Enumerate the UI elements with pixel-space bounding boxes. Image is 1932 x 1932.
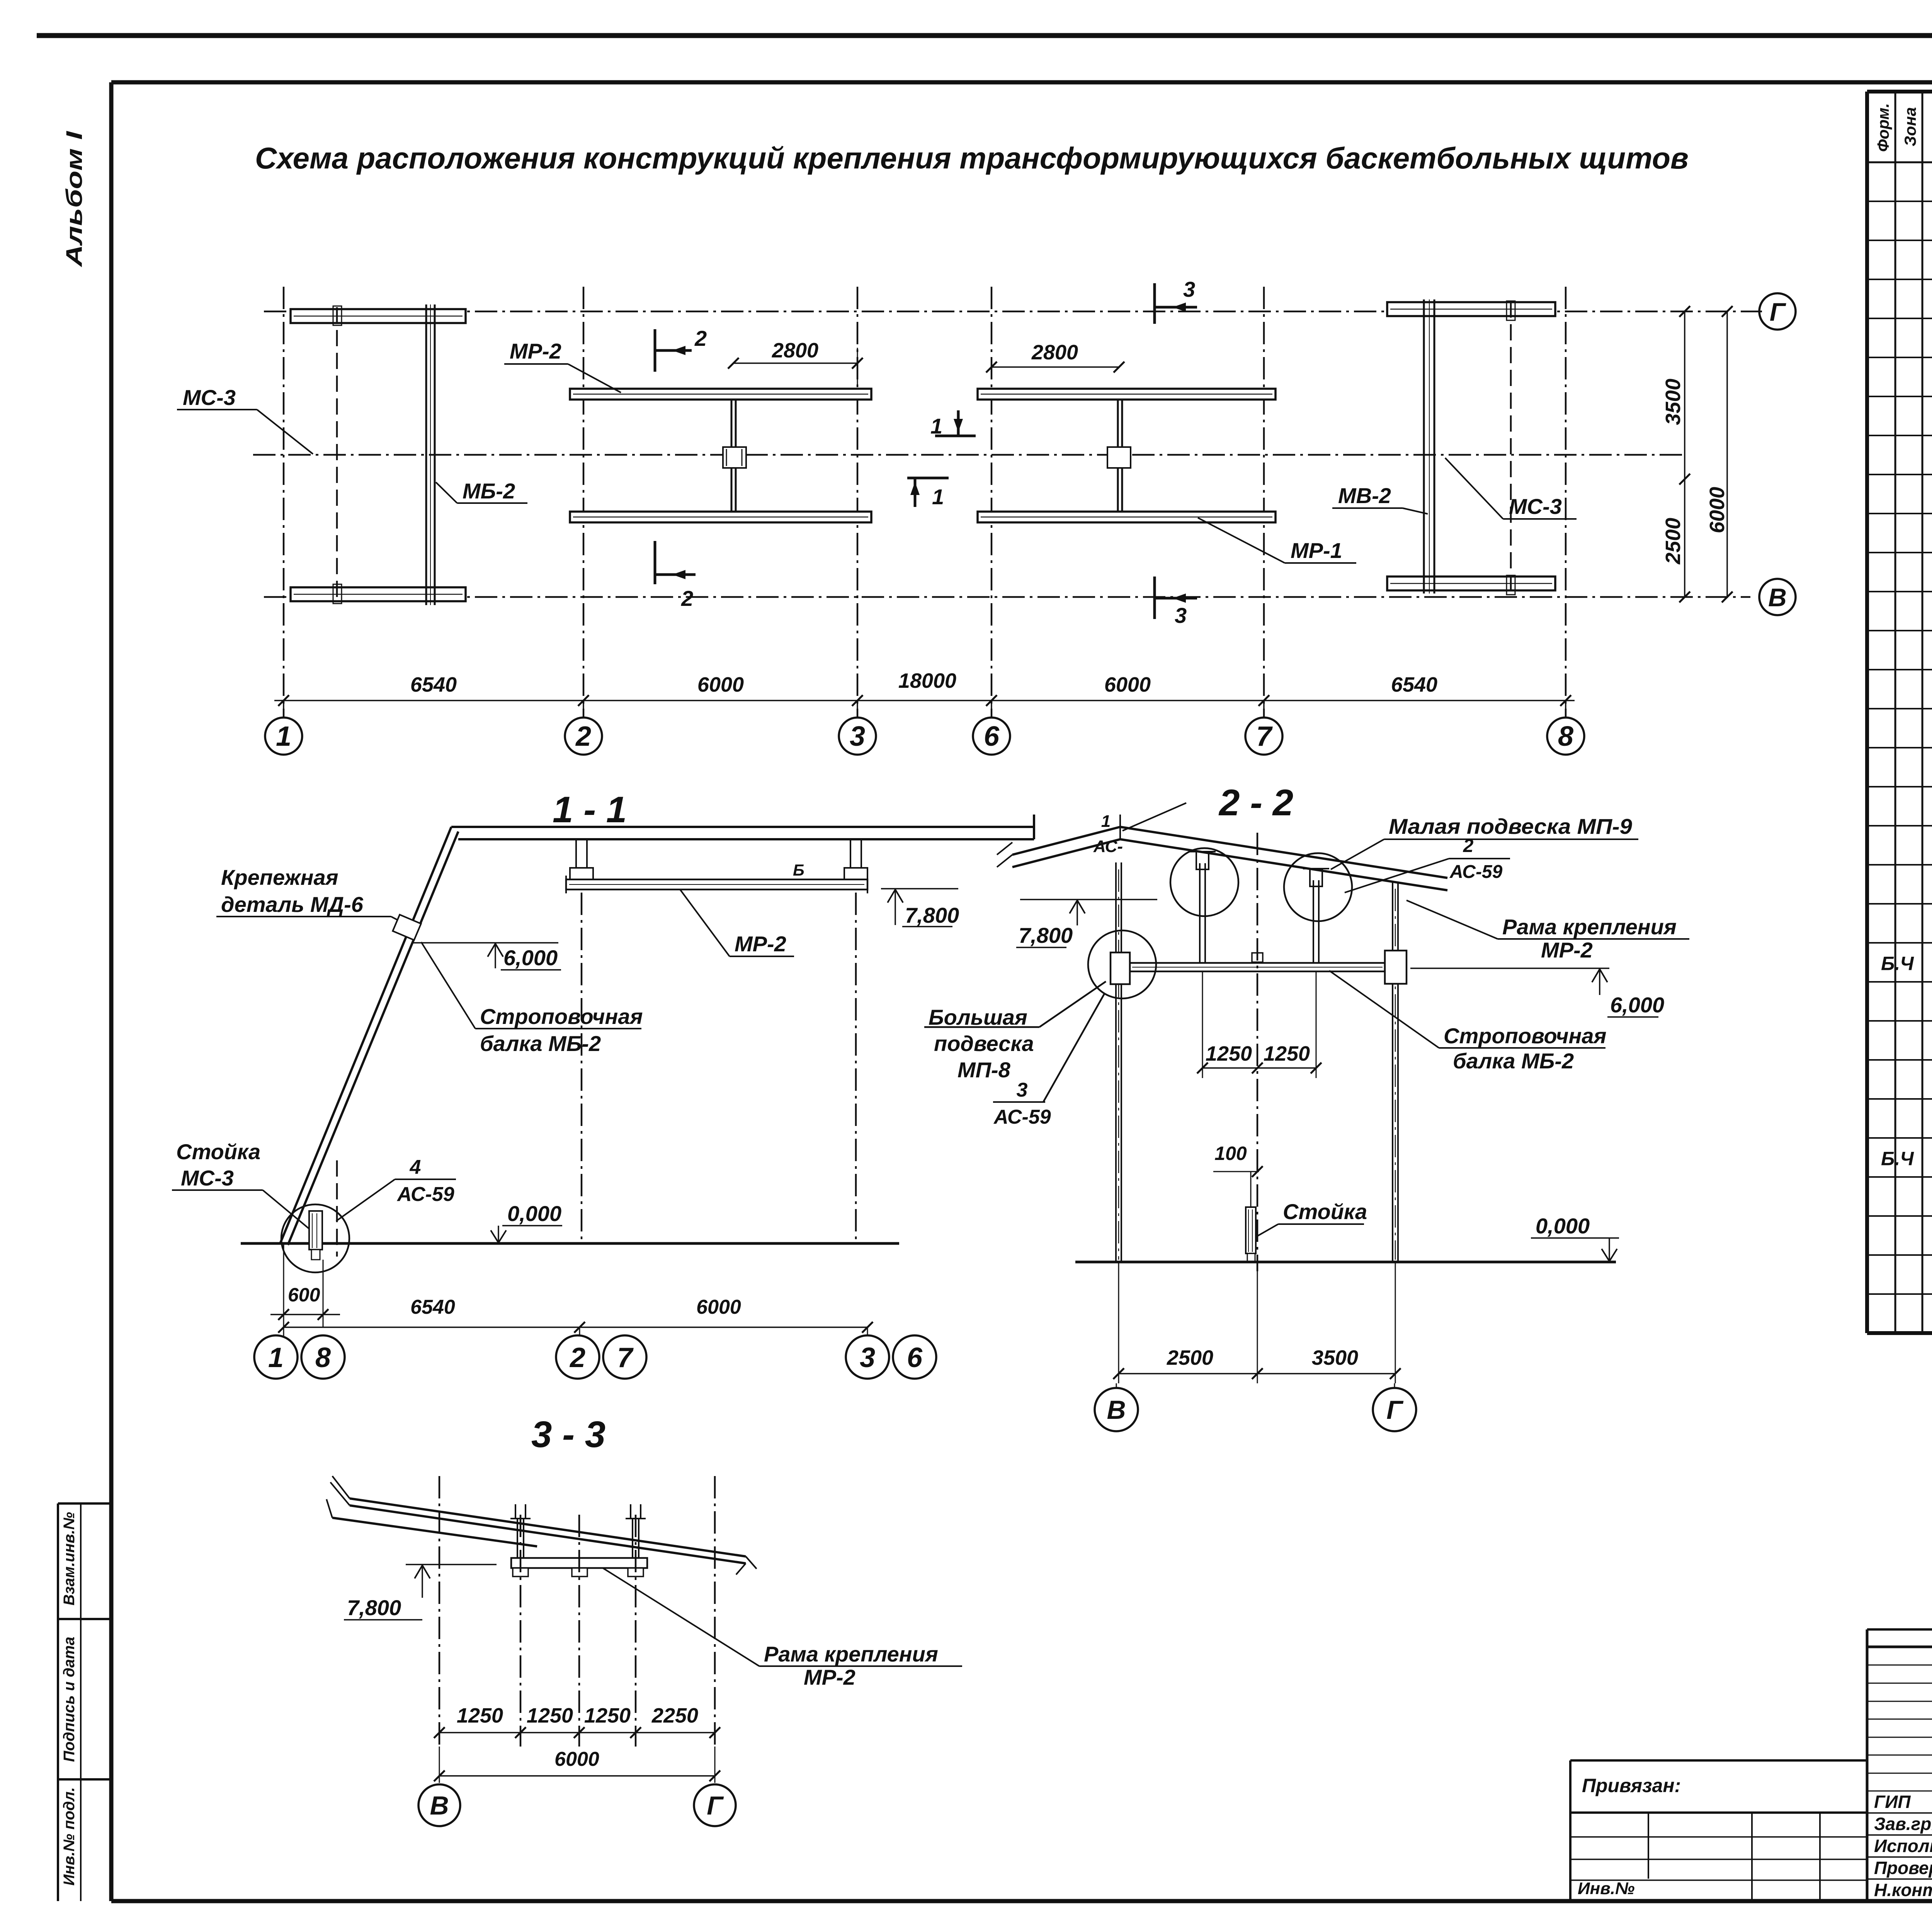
svg-text:3: 3 (1017, 1079, 1028, 1101)
svg-text:Стойка: Стойка (176, 1139, 260, 1164)
svg-text:МС-3: МС-3 (181, 1166, 234, 1190)
svg-text:6540: 6540 (410, 673, 457, 696)
svg-text:1250: 1250 (1264, 1042, 1310, 1065)
svg-text:Б.Ч: Б.Ч (1881, 953, 1914, 975)
svg-text:1250: 1250 (527, 1704, 573, 1727)
svg-text:6: 6 (907, 1342, 923, 1373)
svg-text:Б.Ч: Б.Ч (1881, 1148, 1914, 1170)
svg-text:6: 6 (984, 721, 1000, 752)
svg-text:МВ-2: МВ-2 (1338, 483, 1391, 508)
svg-text:4: 4 (410, 1156, 421, 1179)
svg-text:балка МБ-2: балка МБ-2 (1453, 1049, 1574, 1073)
svg-text:АС-59: АС-59 (993, 1106, 1051, 1128)
svg-text:3 - 3: 3 - 3 (531, 1414, 605, 1455)
svg-text:Альбом I: Альбом I (62, 130, 87, 267)
svg-text:7: 7 (1256, 721, 1273, 752)
svg-text:В: В (1107, 1395, 1126, 1425)
svg-text:МБ-2: МБ-2 (463, 479, 515, 503)
svg-text:1: 1 (930, 414, 942, 438)
svg-text:Зона: Зона (1901, 107, 1919, 146)
svg-text:6000: 6000 (696, 1296, 741, 1318)
svg-text:7,800: 7,800 (905, 903, 959, 927)
svg-text:Г: Г (1386, 1395, 1404, 1425)
svg-text:МР-2: МР-2 (735, 932, 786, 956)
svg-text:0,000: 0,000 (1536, 1214, 1590, 1238)
svg-text:МР-2: МР-2 (510, 339, 561, 363)
svg-text:Провер.: Провер. (1874, 1858, 1932, 1878)
svg-text:АС-59: АС-59 (396, 1183, 454, 1206)
svg-text:1250: 1250 (584, 1704, 631, 1727)
svg-text:7,800: 7,800 (347, 1595, 401, 1620)
svg-text:2800: 2800 (772, 339, 818, 362)
svg-text:1250: 1250 (1206, 1042, 1252, 1065)
svg-text:1 - 1: 1 - 1 (553, 789, 627, 830)
svg-text:Инв.№: Инв.№ (1578, 1879, 1634, 1898)
svg-text:2: 2 (694, 326, 707, 350)
svg-text:МР-2: МР-2 (1541, 938, 1593, 962)
svg-text:6000: 6000 (554, 1748, 599, 1770)
svg-text:балка МБ-2: балка МБ-2 (480, 1031, 601, 1056)
svg-text:7,800: 7,800 (1019, 923, 1073, 947)
svg-text:2500: 2500 (1167, 1346, 1213, 1369)
svg-text:3500: 3500 (1662, 379, 1685, 425)
svg-text:Строповочная: Строповочная (480, 1004, 643, 1029)
svg-text:Взам.инв.№: Взам.инв.№ (61, 1512, 78, 1605)
svg-text:18000: 18000 (898, 669, 956, 692)
svg-text:7: 7 (617, 1342, 634, 1373)
svg-text:МР-2: МР-2 (804, 1665, 855, 1689)
svg-text:100: 100 (1214, 1143, 1247, 1164)
svg-text:деталь МД-6: деталь МД-6 (221, 892, 364, 917)
svg-text:Г: Г (707, 1791, 724, 1820)
svg-text:АС-: АС- (1093, 837, 1123, 856)
svg-text:Исполн.: Исполн. (1874, 1836, 1932, 1856)
svg-text:МС-3: МС-3 (1509, 494, 1562, 519)
svg-text:6000: 6000 (1706, 487, 1729, 533)
svg-text:Крепежная: Крепежная (221, 865, 338, 889)
svg-text:МС-3: МС-3 (183, 385, 236, 410)
svg-text:Привязан:: Привязан: (1582, 1775, 1681, 1796)
svg-text:Строповочная: Строповочная (1444, 1024, 1607, 1048)
svg-text:МР-1: МР-1 (1291, 538, 1342, 563)
svg-text:Малая подвеска МП-9: Малая подвеска МП-9 (1389, 814, 1632, 838)
svg-text:6540: 6540 (1391, 673, 1437, 696)
svg-text:2500: 2500 (1662, 518, 1685, 565)
svg-text:2: 2 (681, 586, 693, 611)
svg-text:Рама крепления: Рама крепления (1502, 915, 1677, 939)
svg-text:Большая: Большая (929, 1005, 1027, 1029)
svg-text:1: 1 (932, 485, 944, 509)
svg-text:600: 600 (288, 1284, 320, 1306)
svg-text:3: 3 (1183, 277, 1195, 301)
svg-text:3: 3 (850, 721, 865, 752)
svg-text:2800: 2800 (1031, 341, 1078, 364)
svg-text:Подпись и дата: Подпись и дата (61, 1637, 78, 1762)
svg-text:6,000: 6,000 (1610, 993, 1664, 1017)
svg-text:3: 3 (860, 1342, 875, 1373)
svg-text:2: 2 (1463, 836, 1474, 856)
svg-text:1: 1 (1101, 812, 1111, 831)
svg-text:6000: 6000 (1104, 673, 1151, 696)
svg-text:2: 2 (569, 1342, 585, 1373)
svg-text:1: 1 (276, 721, 291, 752)
svg-text:Г: Г (1770, 298, 1786, 326)
svg-text:МП-8: МП-8 (957, 1058, 1011, 1082)
svg-text:6540: 6540 (410, 1296, 455, 1318)
svg-text:Б: Б (793, 861, 804, 879)
svg-text:2 - 2: 2 - 2 (1218, 782, 1293, 823)
svg-text:Н.конт.: Н.конт. (1874, 1880, 1932, 1900)
svg-text:3: 3 (1175, 603, 1187, 628)
svg-text:подвеска: подвеска (934, 1031, 1034, 1056)
svg-text:3500: 3500 (1312, 1346, 1358, 1369)
svg-text:1: 1 (268, 1342, 284, 1373)
svg-text:8: 8 (1558, 721, 1573, 752)
svg-text:ГИП: ГИП (1874, 1792, 1911, 1812)
svg-text:6000: 6000 (697, 673, 744, 696)
svg-text:Стойка: Стойка (1283, 1199, 1367, 1224)
svg-text:Форм.: Форм. (1874, 103, 1892, 152)
svg-text:В: В (430, 1791, 449, 1820)
svg-text:Инв.№ подл.: Инв.№ подл. (61, 1787, 78, 1886)
svg-text:Зав.гр.: Зав.гр. (1874, 1814, 1932, 1834)
svg-text:6,000: 6,000 (503, 946, 558, 970)
svg-text:2: 2 (575, 721, 591, 752)
svg-text:2250: 2250 (651, 1704, 698, 1727)
svg-text:1250: 1250 (457, 1704, 503, 1727)
svg-text:8: 8 (315, 1342, 331, 1373)
svg-text:В: В (1768, 583, 1787, 612)
svg-text:Рама крепления: Рама крепления (764, 1642, 938, 1666)
svg-text:АС-59: АС-59 (1449, 862, 1503, 882)
svg-text:Схема расположения конструкц: Схема расположения конструкций крепления… (255, 141, 1689, 175)
svg-text:0,000: 0,000 (507, 1201, 561, 1226)
